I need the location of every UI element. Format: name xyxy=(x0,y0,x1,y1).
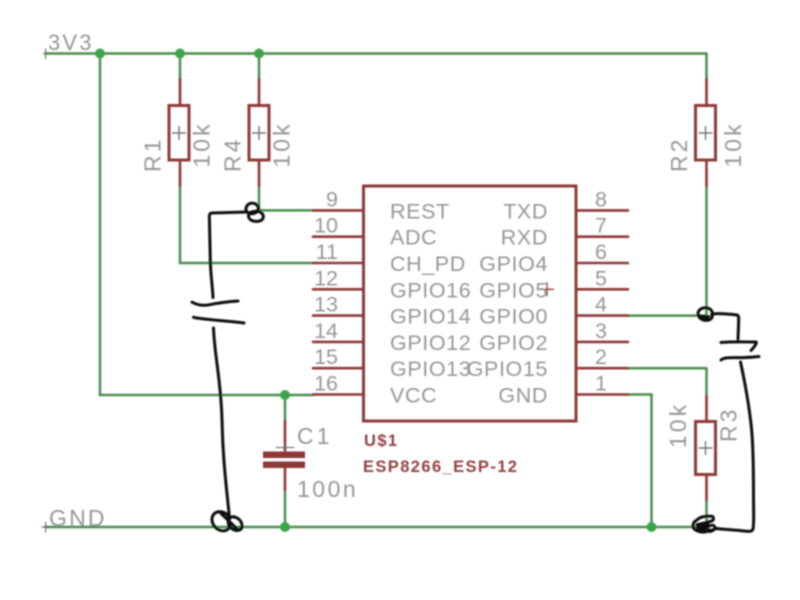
junction 3V3 x R4 xyxy=(254,49,264,59)
svg-text:3: 3 xyxy=(595,319,607,343)
svg-text:12: 12 xyxy=(314,266,338,290)
wire R3 bottom xyxy=(705,500,708,527)
pen scribble circle at R2/pin4 corner xyxy=(698,308,712,321)
wire R1 bottom to CH_PD row xyxy=(179,186,182,263)
wire left vertical 3V3 to VCC row xyxy=(99,54,102,396)
svg-text:16: 16 xyxy=(314,372,338,396)
svg-text:GPIO14: GPIO14 xyxy=(390,305,471,329)
svg-text:1: 1 xyxy=(595,372,607,396)
IC U$1 box xyxy=(364,186,577,421)
wire GPIO15 pin 2 xyxy=(628,367,707,370)
resistor R1 pins xyxy=(179,79,182,186)
svg-text:3V3: 3V3 xyxy=(48,30,94,55)
pin 15 stub xyxy=(313,367,364,370)
wire GND pin 1 horizontal xyxy=(628,393,652,396)
pin 12 stub xyxy=(313,288,364,291)
svg-text:C1: C1 xyxy=(297,423,332,449)
pen lead from circle to switch xyxy=(209,212,246,298)
pin 3 stub xyxy=(576,341,628,344)
resistor R4 origin cross xyxy=(253,127,266,140)
resistor R2 pins xyxy=(705,79,708,186)
wire R1 top xyxy=(179,54,182,80)
wire VCC row xyxy=(100,394,313,397)
resistor R2 body xyxy=(696,106,716,161)
pen scribble knot at GND (right) xyxy=(693,516,717,532)
svg-text:TXD: TXD xyxy=(503,199,548,223)
pin 16 stub xyxy=(313,393,364,396)
pen circle fill (right) xyxy=(700,315,712,321)
pin 2 stub xyxy=(576,367,628,370)
svg-text:11: 11 xyxy=(316,240,338,264)
pin 5 stub xyxy=(576,288,628,291)
junction GND x C1 xyxy=(280,522,290,532)
wire R4 bottom xyxy=(258,186,261,210)
wire R4 top xyxy=(258,54,261,80)
pen scribble knot at GND (left) xyxy=(212,512,242,531)
svg-text:ADC: ADC xyxy=(390,226,437,250)
svg-text:GPIO12: GPIO12 xyxy=(390,331,471,355)
svg-text:REST: REST xyxy=(390,199,450,223)
wire GND rail xyxy=(45,526,707,529)
svg-text:13: 13 xyxy=(314,293,338,317)
capacitor C1 bottom plate xyxy=(263,462,305,469)
svg-text:GPIO4: GPIO4 xyxy=(479,252,548,276)
GND rail endpoint cross xyxy=(42,522,50,532)
pin 7 stub xyxy=(576,235,628,238)
3V3 rail endpoint cross xyxy=(44,49,52,59)
svg-text:RXD: RXD xyxy=(501,226,548,250)
svg-text:GPIO0: GPIO0 xyxy=(479,305,548,329)
IC U$1 origin cross xyxy=(541,283,554,296)
resistor R3 origin cross xyxy=(699,442,712,455)
svg-text:100n: 100n xyxy=(297,476,358,502)
resistor R2 origin cross xyxy=(699,127,712,140)
svg-text:GPIO15: GPIO15 xyxy=(467,357,548,381)
svg-text:GPIO13: GPIO13 xyxy=(390,357,471,381)
svg-text:GPIO16: GPIO16 xyxy=(390,278,471,302)
svg-text:CH_PD: CH_PD xyxy=(390,252,466,276)
pen knot fill (right) xyxy=(696,521,711,532)
pen line down to GND (left) xyxy=(214,328,230,519)
svg-text:2: 2 xyxy=(595,345,607,369)
svg-text:14: 14 xyxy=(314,319,338,343)
pen knot tail (right) xyxy=(707,525,714,531)
svg-text:10: 10 xyxy=(314,214,338,238)
svg-text:10k: 10k xyxy=(720,121,746,167)
svg-text:15: 15 xyxy=(314,345,338,369)
svg-text:GND: GND xyxy=(49,505,107,531)
svg-text:R3: R3 xyxy=(716,407,742,442)
svg-text:10k: 10k xyxy=(269,121,295,167)
pin 4 stub xyxy=(576,314,628,317)
pin 9 stub xyxy=(313,209,364,212)
svg-text:GPIO5: GPIO5 xyxy=(479,278,548,302)
pin 14 stub xyxy=(313,341,364,344)
svg-text:10k: 10k xyxy=(189,121,215,167)
wire R3 top xyxy=(705,368,708,396)
svg-text:R4: R4 xyxy=(220,137,246,172)
junction 3V3 x R1 xyxy=(175,49,185,59)
pen switch contact lower (left) xyxy=(194,317,245,323)
resistor R1 origin cross xyxy=(173,127,186,140)
svg-text:GPIO2: GPIO2 xyxy=(479,331,548,355)
svg-text:9: 9 xyxy=(326,187,338,211)
svg-text:VCC: VCC xyxy=(390,384,437,408)
wire 3V3 rail corner down to R2 xyxy=(705,54,708,80)
svg-text:ESP8266_ESP-12: ESP8266_ESP-12 xyxy=(363,458,518,476)
pen lead from circle to switch (right) xyxy=(712,314,739,339)
pin 1 stub xyxy=(576,393,628,396)
resistor R1 body xyxy=(169,106,189,161)
resistor R3 body xyxy=(696,422,716,475)
wire R2 bottom to GPIO0 row xyxy=(705,186,708,316)
capacitor C1 origin cross xyxy=(276,443,294,452)
svg-text:GND: GND xyxy=(498,384,548,408)
pin 10 stub xyxy=(313,235,364,238)
junction 3V3 x left vertical xyxy=(95,49,105,59)
wire REST pin 9 xyxy=(259,209,313,212)
svg-text:7: 7 xyxy=(595,214,607,238)
pen switch contact lower (right) xyxy=(721,357,759,361)
svg-text:4: 4 xyxy=(595,293,607,317)
capacitor C1 top plate xyxy=(263,452,305,459)
svg-text:10k: 10k xyxy=(665,402,691,448)
svg-text:6: 6 xyxy=(595,240,607,264)
pen line down to GND (right) xyxy=(717,362,754,531)
pen switch contact upper (left) xyxy=(192,301,238,305)
resistor R4 pins xyxy=(258,79,261,186)
pin 11 stub xyxy=(313,262,364,265)
pin 13 stub xyxy=(313,314,364,317)
wire 3V3 rail horizontal xyxy=(45,52,707,55)
pin 6 stub xyxy=(576,262,628,265)
capacitor C1 pins xyxy=(284,421,287,490)
junction VCC x C1 xyxy=(280,390,290,400)
pin 8 stub xyxy=(576,209,628,212)
pen switch contact upper (right) xyxy=(721,342,756,351)
svg-text:5: 5 xyxy=(595,266,607,290)
resistor R4 body xyxy=(249,106,269,161)
wire C1 bottom to GND xyxy=(284,490,287,527)
svg-text:R2: R2 xyxy=(666,137,692,172)
resistor R3 pins xyxy=(705,396,708,500)
junction GND x pin1 xyxy=(647,522,657,532)
wire CH_PD pin 11 xyxy=(180,262,313,265)
svg-text:R1: R1 xyxy=(140,137,166,172)
wire pin 1 vertical to GND rail xyxy=(650,395,653,528)
wire C1 top xyxy=(284,395,287,421)
svg-text:U$1: U$1 xyxy=(364,432,398,450)
pen scribble circle at R4/pin9 corner xyxy=(246,203,263,221)
svg-text:8: 8 xyxy=(595,187,607,211)
wire GPIO0 pin 4 xyxy=(628,314,707,317)
